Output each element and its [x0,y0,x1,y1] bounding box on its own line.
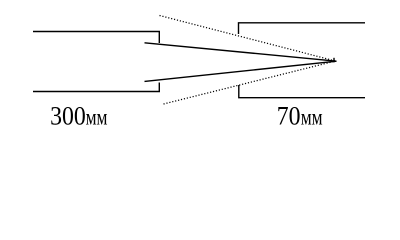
svg-text:70: 70 [277,103,301,131]
svg-text:мм: мм [86,105,108,131]
svg-text:300: 300 [50,103,86,131]
svg-text:мм: мм [301,105,323,131]
